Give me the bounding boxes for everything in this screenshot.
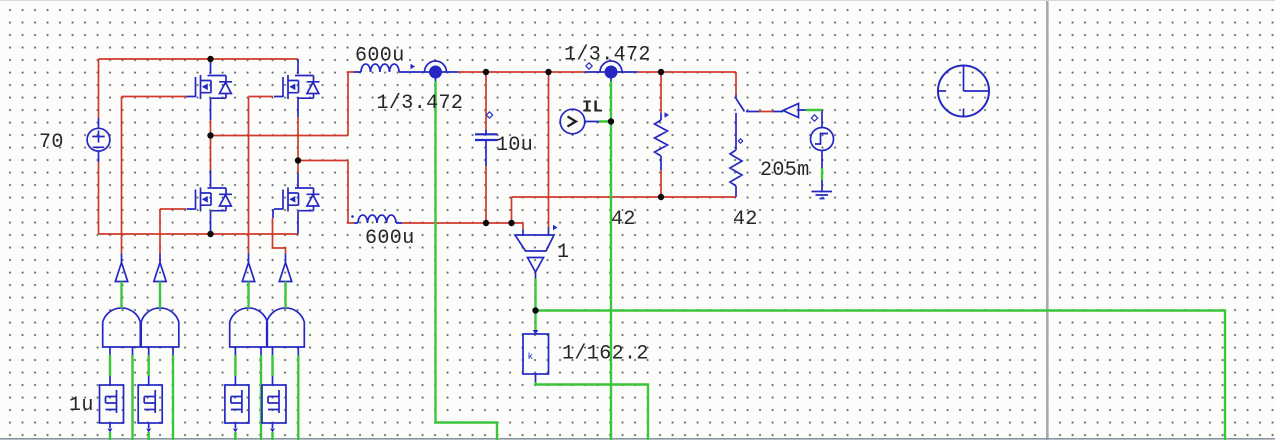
- svg-text:600u: 600u: [355, 45, 405, 68]
- svg-text:IL: IL: [582, 99, 603, 118]
- svg-text:42: 42: [733, 208, 758, 231]
- svg-text:10u: 10u: [496, 134, 533, 157]
- svg-text:1/162.2: 1/162.2: [562, 343, 649, 366]
- svg-text:600u: 600u: [365, 227, 415, 250]
- svg-text:1: 1: [557, 241, 569, 264]
- svg-text:1/3.472: 1/3.472: [564, 44, 651, 67]
- svg-text:k: k: [528, 351, 534, 362]
- svg-text:1u: 1u: [69, 394, 94, 417]
- svg-text:70: 70: [39, 131, 64, 154]
- svg-text:42: 42: [611, 208, 636, 231]
- svg-text:1/3.472: 1/3.472: [377, 92, 464, 115]
- svg-text:205m: 205m: [760, 159, 810, 182]
